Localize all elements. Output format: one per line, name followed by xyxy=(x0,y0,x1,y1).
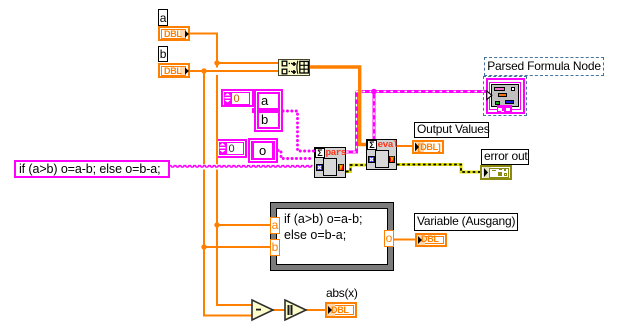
tunnel b xyxy=(270,239,280,256)
white arrow into Parsed Formula Node xyxy=(487,91,492,100)
wire o tunnel to Variable indicator xyxy=(394,239,415,241)
error out label xyxy=(481,149,529,165)
Parsed Formula Node label xyxy=(484,57,604,76)
Output Values label xyxy=(414,122,489,138)
build array icon xyxy=(282,61,308,74)
Variable (Ausgang) indicator DBL xyxy=(415,233,447,247)
label a xyxy=(158,9,168,26)
branch a to build array xyxy=(217,62,278,64)
error out indicator xyxy=(480,165,512,180)
black arrow in control a xyxy=(185,31,189,38)
spinner arrows array 1 xyxy=(220,93,231,153)
control b (DBL) xyxy=(158,63,190,78)
string constant formula xyxy=(14,160,170,178)
array constant o (output variable) xyxy=(248,138,278,163)
array constant 0 (values 2) xyxy=(216,139,247,158)
string squiggly wire constant to pars xyxy=(170,166,313,168)
build array node xyxy=(278,59,310,76)
control a (DBL) xyxy=(158,26,190,41)
black arrow error out indicator xyxy=(484,168,488,177)
wire subtract to abs xyxy=(273,309,285,311)
formula node text xyxy=(284,211,394,243)
beaded wire o array to pars xyxy=(278,151,314,159)
formula node frame xyxy=(270,202,394,271)
label b xyxy=(158,46,168,62)
wire abs to indicator xyxy=(306,309,325,311)
black arrow abs indicator xyxy=(328,306,332,314)
error wire pars to eval xyxy=(346,165,480,173)
abs(x) indicator DBL xyxy=(325,302,357,318)
black arrow output values indicator xyxy=(415,143,419,152)
subtract triangle xyxy=(252,300,273,320)
tunnel o xyxy=(384,230,394,247)
white X in eval blue box xyxy=(370,158,373,161)
wire a: control a to right, down, to subtract xyxy=(189,34,415,316)
junction dots orange xyxy=(201,60,219,249)
branch b to formula tunnel xyxy=(204,246,270,248)
pars node (Parse Formula String) xyxy=(314,147,346,178)
white X in pars blue box xyxy=(318,166,321,169)
eval node (Eval Parsed Formula String) xyxy=(366,139,397,170)
black arrow in control b xyxy=(185,68,189,75)
parsed formula wire pars to indicator and eval xyxy=(346,89,487,152)
wire b xyxy=(189,70,278,72)
branch a to formula tunnel xyxy=(217,224,270,226)
array constant a b (variable names) xyxy=(252,108,255,114)
Variable (Ausgang) label xyxy=(414,213,518,231)
abs(x) label xyxy=(326,287,362,299)
thick DBL-array wire build array to eval xyxy=(310,67,366,145)
black arrow variable indicator xyxy=(418,236,422,244)
wire eval to Output Values xyxy=(397,145,412,147)
array constant 0 (values 1) xyxy=(221,89,254,107)
beaded wire ab array to pars xyxy=(278,111,314,159)
Output Values indicator (DBL array) xyxy=(412,140,444,154)
tunnel a xyxy=(270,217,280,234)
error wire eval to error out xyxy=(397,165,480,173)
Parsed Formula Node indicator xyxy=(483,76,527,116)
absolute value triangle xyxy=(285,300,306,320)
